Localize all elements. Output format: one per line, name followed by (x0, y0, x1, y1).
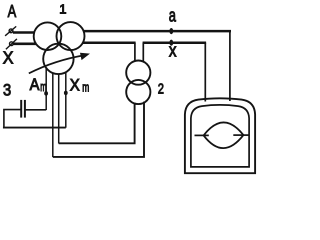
wire right vertical from rail a to detector (229, 31, 231, 101)
svg-text:a: a (169, 6, 177, 26)
detector case inner (191, 105, 249, 167)
wire rail a (top) (84, 30, 231, 33)
wire terminal A to T1 (13, 31, 35, 34)
T1 lead 2 (x=52.8) (52, 73, 54, 157)
autotransformer T1 right circle (57, 22, 85, 50)
capacitor C3 plate left (20, 100, 22, 118)
T2 top-right lead (142, 43, 144, 62)
T1 lead Am (x=46.2) (45, 68, 47, 110)
detector lens element (204, 122, 244, 148)
node a dot (169, 28, 173, 34)
svg-text:A: A (8, 1, 17, 21)
svg-text:m: m (40, 80, 46, 94)
svg-text:A: A (30, 75, 41, 94)
autotransformer T1 bottom circle (43, 44, 73, 74)
T2 top-left lead (134, 43, 136, 62)
wire terminal X to T1 (13, 42, 36, 45)
T1 lead Xm (x=65.8) (65, 72, 67, 128)
svg-text:m: m (82, 80, 89, 94)
svg-text:X: X (70, 75, 80, 94)
svg-text:X: X (3, 48, 14, 68)
svg-text:1: 1 (59, 2, 66, 17)
detector lens left lead (195, 134, 209, 136)
wire T1 lead3 to T2 bottom-left lead (59, 103, 135, 144)
junction dot Xm (64, 91, 68, 95)
wire T1 lead2 to T2 bottom-right lead (53, 102, 144, 157)
junction dot Am (44, 91, 48, 95)
svg-text:2: 2 (158, 81, 164, 98)
svg-text:3: 3 (3, 82, 11, 100)
svg-text:x: x (169, 40, 177, 61)
node x dot (169, 40, 173, 46)
wire inner vertical from rail x to detector (204, 43, 206, 102)
regulation arrow through T1 (29, 53, 89, 73)
terminal X (slashed circle) (6, 39, 17, 49)
terminal A (slashed circle) (5, 26, 16, 35)
wire capacitor bottom loop to Xm lead (4, 126, 66, 129)
wire capacitor right lead to Am lead (25, 109, 46, 111)
autotransformer T1 left circle (34, 22, 62, 50)
T1 lead 3 (x=58.7) (58, 74, 60, 144)
wire rail x right segment (143, 41, 207, 44)
detector case outer (185, 98, 255, 173)
transformer T2 bottom circle (126, 80, 150, 104)
detector lens right lead (233, 134, 248, 136)
wire capacitor left lead (4, 110, 21, 128)
wire rail x left segment (T1 to T2 lead) (83, 41, 136, 44)
transformer T2 top circle (126, 61, 150, 85)
capacitor C3 plate right (24, 100, 26, 118)
